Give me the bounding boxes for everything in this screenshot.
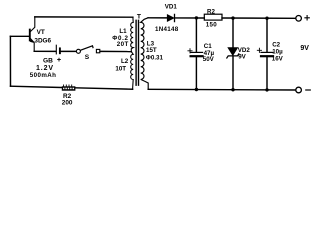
wire: VD2 branch vertical bbox=[232, 18, 234, 90]
transistor VT bbox=[30, 17, 35, 51]
svg-text:10µ: 10µ bbox=[272, 48, 283, 55]
svg-text:500mAh: 500mAh bbox=[30, 72, 56, 79]
svg-text:R2: R2 bbox=[207, 9, 215, 16]
winding L3 bbox=[141, 18, 149, 90]
terminal - output bbox=[296, 87, 310, 93]
wire: bottom rail left bbox=[11, 86, 133, 89]
svg-text:16V: 16V bbox=[272, 55, 284, 62]
svg-text:1N4148: 1N4148 bbox=[155, 26, 179, 33]
resistor R2 (200) bottom bbox=[62, 85, 76, 91]
wire: bottom rail right bbox=[148, 88, 296, 91]
label L3 15T Φ0.31 bbox=[146, 41, 164, 62]
svg-text:VD1: VD1 bbox=[165, 3, 178, 10]
wire: battery to switch bbox=[60, 50, 76, 52]
label VT 3DG6 bbox=[34, 29, 51, 45]
svg-text:9V: 9V bbox=[300, 45, 309, 52]
wire: top rail right bbox=[148, 17, 296, 20]
node: junction top C2 bbox=[265, 17, 268, 20]
node: junction top C1 bbox=[195, 16, 198, 19]
svg-text:C1: C1 bbox=[204, 43, 212, 50]
transformer T core bbox=[136, 20, 138, 85]
svg-text:150: 150 bbox=[206, 21, 217, 28]
wire: top rail left (collector to L1 top) bbox=[35, 16, 133, 18]
svg-text:S: S bbox=[85, 54, 90, 61]
diode VD1 bbox=[167, 14, 174, 21]
terminal + output bbox=[296, 15, 309, 21]
capacitor C1 bbox=[188, 49, 203, 57]
label L2 10T bbox=[115, 58, 128, 73]
node: junction bottom C1 bbox=[195, 88, 198, 91]
svg-text:20T: 20T bbox=[117, 41, 129, 48]
svg-text:3DG6: 3DG6 bbox=[34, 37, 51, 44]
svg-text:L1: L1 bbox=[119, 28, 127, 35]
svg-text:1.2V: 1.2V bbox=[36, 65, 54, 72]
label S bbox=[85, 54, 90, 61]
svg-text:50V: 50V bbox=[203, 56, 215, 63]
label VD2 9V bbox=[238, 47, 251, 60]
svg-text:200: 200 bbox=[62, 99, 73, 106]
label GB 1.2V 500mAh bbox=[30, 57, 56, 79]
label VD1 1N4148 bbox=[155, 3, 179, 33]
wire: base lead bbox=[10, 35, 29, 37]
switch S bbox=[76, 46, 99, 54]
battery polarity + bbox=[58, 58, 61, 61]
resistor R2 (150) top bbox=[204, 14, 222, 20]
svg-text:VT: VT bbox=[37, 29, 45, 36]
svg-text:9V: 9V bbox=[238, 53, 246, 60]
wire: left rail down bbox=[9, 36, 11, 86]
battery GB bbox=[56, 45, 60, 54]
label 9V output bbox=[300, 45, 309, 52]
capacitor C2 bbox=[257, 48, 273, 56]
wire: C1 branch vertical bbox=[195, 18, 197, 90]
winding L2 bbox=[131, 52, 134, 90]
label R2 150 bbox=[206, 9, 217, 29]
svg-text:15T: 15T bbox=[146, 47, 157, 54]
label T bbox=[137, 13, 142, 20]
wire: switch to transformer tap bbox=[100, 50, 131, 52]
wire: emitter to battery bbox=[34, 50, 56, 52]
label R2 200 bbox=[62, 93, 73, 107]
svg-text:10T: 10T bbox=[115, 65, 126, 72]
svg-text:L2: L2 bbox=[121, 58, 129, 65]
wire: C2 branch vertical bbox=[266, 18, 268, 90]
label L1 Φ0.2 20T bbox=[112, 28, 128, 48]
svg-text:Φ0.31: Φ0.31 bbox=[146, 54, 164, 61]
node: junction bottom VD2 bbox=[231, 88, 234, 91]
zener diode VD2 bbox=[227, 48, 239, 58]
node: junction bottom C2 bbox=[265, 88, 268, 91]
winding L1 bbox=[131, 17, 134, 51]
svg-text:GB: GB bbox=[43, 57, 53, 64]
label C1 47µ 50V bbox=[203, 43, 215, 63]
label C2 10µ 16V bbox=[272, 42, 284, 63]
node: junction top VD2 bbox=[231, 16, 234, 19]
